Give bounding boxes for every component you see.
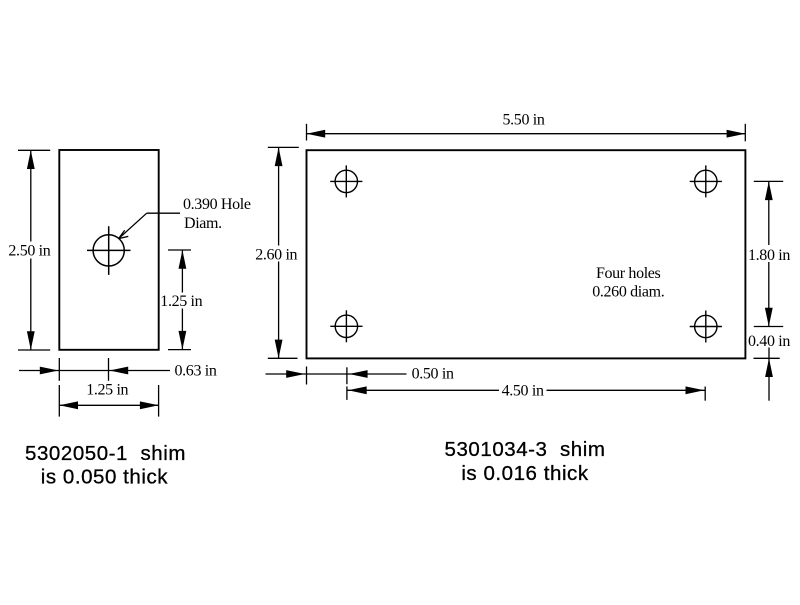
svg-text:0.40 in: 0.40 in (748, 333, 790, 350)
dimension 0.50 in (hole x offset right shim) (266, 365, 454, 384)
svg-text:Four holes: Four holes (596, 265, 661, 282)
svg-text:1.80 in: 1.80 in (748, 247, 790, 264)
hole top-left of shim 5301034-3 (330, 165, 362, 197)
hole 0.390 dia in shim 5302050-1 (87, 226, 131, 275)
dimension 0.40 in (hole offset from bottom) (748, 333, 790, 401)
hole bottom-left of shim 5301034-3 (330, 310, 362, 342)
dimension 1.80 in (hole spacing vertical) (748, 181, 790, 326)
leader arrow to hole (119, 213, 180, 238)
dimension 2.50 in (left shim height) (8, 150, 50, 350)
note Four holes 0.260 diam. (592, 265, 664, 301)
svg-text:5.50 in: 5.50 in (503, 112, 545, 129)
svg-text:1.25 in: 1.25 in (160, 293, 202, 310)
svg-text:0.390 Hole: 0.390 Hole (183, 196, 251, 213)
dimension 0.63 in (hole x offset) (19, 358, 217, 381)
dimension 2.60 in (right shim height) (255, 147, 299, 358)
dimension 1.25 in (left shim width) (59, 381, 158, 416)
svg-text:2.60 in: 2.60 in (255, 247, 297, 264)
dimension 1.25 in (hole height from bottom) (160, 250, 202, 350)
hole bottom-right of shim 5301034-3 (690, 311, 722, 343)
shim 5301034-3 outline (307, 150, 746, 358)
svg-text:is 0.016 thick: is 0.016 thick (461, 462, 589, 485)
dimension 5.50 in (right shim width) (307, 112, 746, 142)
caption shim 5301034-3 (445, 438, 606, 485)
svg-text:1.25 in: 1.25 in (86, 381, 128, 398)
hole top-right of shim 5301034-3 (690, 165, 722, 197)
svg-text:5302050-1 shim: 5302050-1 shim (25, 442, 186, 465)
svg-text:4.50 in: 4.50 in (502, 382, 544, 399)
label 0.390 Hole Diam. (183, 196, 251, 232)
svg-text:Diam.: Diam. (184, 215, 222, 232)
svg-text:0.260 diam.: 0.260 diam. (592, 284, 664, 301)
dimension 4.50 in (hole spacing horizontal) (347, 382, 705, 400)
shim 5302050-1 outline (59, 150, 158, 350)
svg-text:is 0.050 thick: is 0.050 thick (41, 465, 169, 488)
svg-text:5301034-3 shim: 5301034-3 shim (445, 438, 606, 461)
svg-text:2.50 in: 2.50 in (8, 243, 50, 260)
caption shim 5302050-1 (25, 442, 186, 489)
svg-text:0.50 in: 0.50 in (412, 365, 454, 382)
svg-text:0.63 in: 0.63 in (175, 363, 217, 380)
